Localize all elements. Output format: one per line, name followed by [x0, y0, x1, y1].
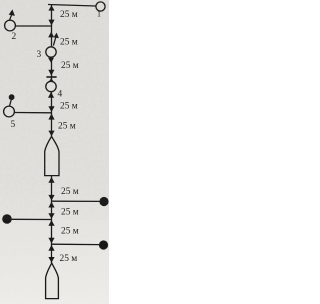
- building symbol 1: [45, 137, 59, 176]
- arrow up below node A: [48, 202, 54, 208]
- regulator flag arrow on circle 3: [53, 37, 56, 46]
- wire branch right to dot C: [52, 243, 100, 245]
- arrow down above building 2: [48, 257, 54, 263]
- wire top header line to source circle 1: [48, 5, 96, 7]
- filled consumer dot A: [99, 197, 108, 206]
- consumer circle 2: [5, 20, 16, 31]
- filled consumer dot C: [99, 240, 108, 249]
- arrow up below node B: [48, 220, 54, 226]
- arrow down below circle 3: [48, 58, 54, 63]
- arrow down above building 1: [48, 131, 54, 137]
- arrow up below building 1: [48, 177, 54, 183]
- node 4 tick bar: [46, 76, 56, 78]
- arrow down at right branch node A: [48, 195, 54, 201]
- node 1 (source circle): [96, 2, 105, 11]
- consumer circle 5: [4, 106, 15, 117]
- arrow up below node C: [48, 245, 54, 251]
- arrow up on segment 2: [48, 32, 54, 38]
- wire main vertical line upper run: [51, 5, 53, 137]
- arrow down above node 4 bar: [48, 70, 54, 76]
- wire branch to consumer 2: [15, 25, 51, 27]
- small arrow up under bar: [49, 78, 54, 81]
- consumer circle 4 on main: [46, 81, 56, 91]
- weight ball on circle 5: [9, 94, 15, 100]
- wire branch to consumer 5: [14, 112, 51, 114]
- arrow down at node 5 junction: [48, 106, 54, 112]
- wire main vertical line lower run: [51, 176, 53, 263]
- weight stem on circle 5: [9, 100, 11, 106]
- wire branch left to dot B: [12, 218, 52, 220]
- arrow up at top of segment 1: [48, 5, 54, 10]
- arrow up below node 5: [48, 113, 54, 119]
- filled consumer dot B: [2, 214, 12, 224]
- regulator flag arrow on circle 2: [9, 14, 11, 20]
- consumer circle 3 on main: [46, 47, 56, 57]
- arrow down at right branch node C: [48, 238, 54, 244]
- scan noise overlay: [0, 0, 1, 1]
- arrow up below circle 4: [48, 92, 54, 98]
- arrow down at node 2 junction: [48, 20, 54, 26]
- wire branch right to dot A: [52, 200, 100, 202]
- arrow down at left branch node B: [48, 213, 54, 219]
- building symbol 2: [46, 263, 59, 299]
